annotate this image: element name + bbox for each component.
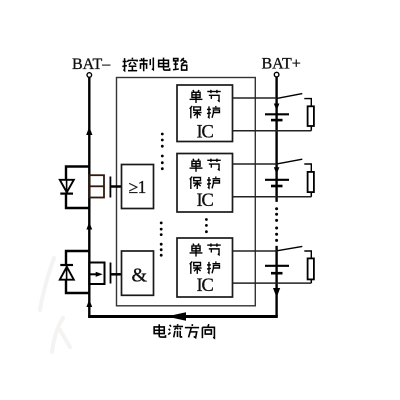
svg-text:≥1: ≥1 bbox=[129, 177, 146, 197]
svg-text:BAT–: BAT– bbox=[72, 56, 111, 73]
svg-text:IC: IC bbox=[197, 276, 214, 296]
svg-text:IC: IC bbox=[197, 191, 214, 211]
svg-text:&: & bbox=[132, 264, 148, 286]
svg-text:BAT+: BAT+ bbox=[262, 56, 301, 73]
svg-text:IC: IC bbox=[197, 123, 214, 143]
